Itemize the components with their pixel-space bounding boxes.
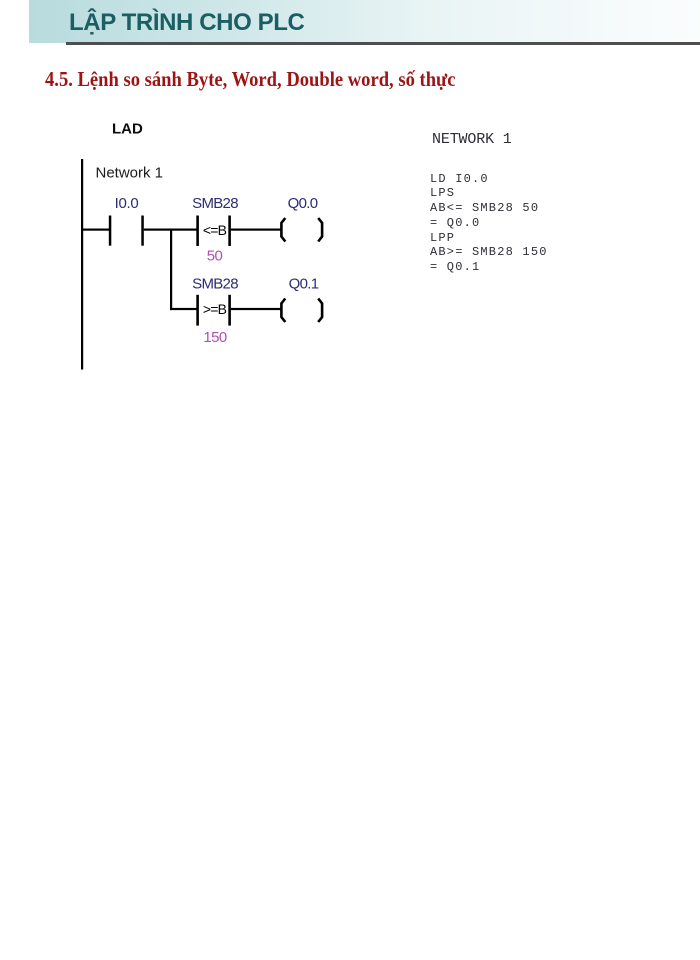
section heading xyxy=(45,69,455,90)
STL code block xyxy=(430,172,548,275)
compare contact 2 SMB28 >=B xyxy=(192,276,238,326)
svg-text:50: 50 xyxy=(207,248,223,265)
compare contact 1 SMB28 <=B xyxy=(192,195,238,246)
svg-text:SMB28: SMB28 xyxy=(192,276,238,293)
svg-text:LAD: LAD xyxy=(112,121,143,138)
left power rail xyxy=(81,159,83,370)
contact I0.0 xyxy=(109,195,144,246)
svg-text:>=B: >=B xyxy=(203,301,227,317)
svg-text:Q0.0: Q0.0 xyxy=(288,195,318,212)
svg-text:<=B: <=B xyxy=(203,222,227,238)
STL network header xyxy=(432,132,512,147)
svg-text:150: 150 xyxy=(203,329,226,346)
wire rail to contact I0.0 xyxy=(81,229,110,231)
label Network 1 xyxy=(96,165,164,182)
header underline xyxy=(66,42,700,45)
coil Q0.1 xyxy=(281,276,322,323)
svg-text:Q0.1: Q0.1 xyxy=(289,276,319,293)
coil Q0.0 xyxy=(281,195,322,242)
value 50 xyxy=(207,248,223,265)
branch wire to compare 2 xyxy=(170,308,198,310)
slide title xyxy=(69,11,304,35)
header gradient bar xyxy=(29,0,700,43)
svg-text:I0.0: I0.0 xyxy=(115,195,139,212)
svg-text:Network 1: Network 1 xyxy=(96,165,164,182)
value 150 xyxy=(203,329,226,346)
svg-text:SMB28: SMB28 xyxy=(192,195,238,212)
wire compare 1 to coil Q0.0 xyxy=(231,229,282,231)
wire compare 2 to coil Q0.1 xyxy=(231,308,282,310)
label LAD xyxy=(112,121,143,138)
branch junction vertical wire xyxy=(170,229,172,311)
wire contact I0.0 to compare 1 xyxy=(144,229,197,231)
ladder diagram xyxy=(60,100,440,400)
